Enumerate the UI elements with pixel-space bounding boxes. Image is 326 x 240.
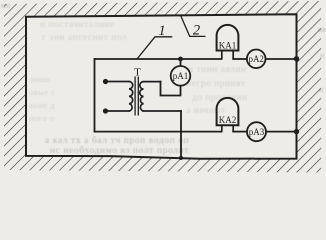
relay KA1 [217,25,239,51]
ammeter pA3 [247,122,266,141]
wire: transformer secondary top lead [144,81,161,83]
leader line for label 2 [181,16,206,37]
svg-text:г эни апсеснит пол: г эни апсеснит пол [42,33,127,43]
svg-text:pA3: pA3 [249,127,265,137]
enclosure shield wall [26,14,297,159]
wire: pA1 top lead [180,59,182,66]
svg-text:овые с: овые с [29,87,56,97]
paper background [0,0,326,177]
wire: top bus right of KA1 to pA2 [233,58,247,60]
svg-text:2: 2 [193,23,200,39]
svg-text:н постачиталние: н постачиталние [40,20,115,30]
ammeter pA2 [247,50,266,69]
svg-text:T: T [134,67,141,79]
wire: pA1 bottom lead to step [161,82,181,96]
relay KA2 [217,98,239,125]
node: top bus to wall junction [294,56,299,61]
transformer T core [135,77,138,116]
svg-text:ание д: ание д [29,100,55,110]
node: primary terminal bottom [103,108,108,113]
wire: transformer primary bottom lead [106,110,130,112]
faint bleed-through text inside (decorative) [29,20,248,123]
wire: transformer secondary bottom lead [144,110,182,112]
svg-text:лиши: лиши [29,74,51,84]
transformer T primary winding [129,82,133,112]
svg-text:а кал тх а бал тч проп водоп о: а кал тх а бал тч проп водоп оп [45,135,189,146]
wire: transformer primary top lead [106,81,130,83]
svg-text:pA2: pA2 [248,54,264,64]
ammeter pA1 [171,66,191,86]
wire: top bus left segment [95,58,222,60]
svg-text:негро принят: негро принят [186,79,246,89]
node: bottom bus to wall junction [294,129,299,134]
node: primary terminal top [103,79,108,84]
wire: bottom bus left segment [95,131,222,133]
stronger bleed text lower band (decorative) [45,135,189,156]
node: pA1 branch junction [178,57,183,62]
wire: left vertical riser [94,59,96,132]
wire: pA3 to right wall [266,131,297,133]
wire: ground drop to bottom wall [180,111,182,158]
svg-text:и тини авлин: и тини авлин [188,65,247,75]
svg-text:1: 1 [158,23,165,39]
wire: pA2 to right wall [266,58,297,60]
svg-text:pA1: pA1 [173,71,189,81]
svg-text:нс необходимо вз полт пролит: нс необходимо вз полт пролит [50,145,189,156]
faint bleed-through text outside (decorative) [1,1,326,94]
svg-text:ного п: ного п [29,113,55,123]
svg-text:KA2: KA2 [219,115,237,125]
svg-text:KA1: KA1 [219,41,237,51]
wire: bottom bus right of KA2 to pA3 [233,131,247,133]
shield hatching [4,1,321,173]
leader line for label 1 [137,37,172,59]
node: ground drop to wall junction [179,156,183,160]
transformer T secondary winding [140,82,144,111]
